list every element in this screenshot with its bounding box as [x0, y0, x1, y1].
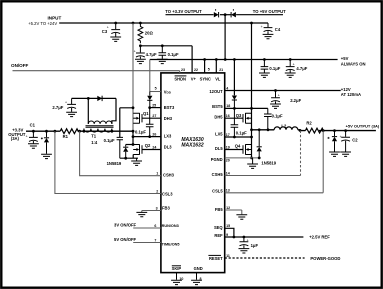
svg-text:Q2: Q2: [145, 143, 151, 148]
svg-text:5: 5: [208, 68, 210, 72]
pin label SHDN: [174, 76, 186, 82]
diode aux rectifier: [97, 96, 102, 101]
svg-text:10: 10: [179, 277, 183, 281]
transistor Q2: [133, 143, 151, 155]
junction dots on VL rail: [203, 58, 291, 61]
svg-text:+: +: [65, 101, 67, 105]
junction BST3: [148, 106, 151, 109]
svg-text:1N5819: 1N5819: [261, 160, 276, 165]
svg-text:REF: REF: [214, 233, 223, 238]
svg-text:2.2μF: 2.2μF: [290, 98, 301, 103]
wire left power ground line: [120, 157, 138, 159]
svg-text:0.1μF: 0.1μF: [236, 131, 247, 136]
diode schottky (3.3V output): [41, 131, 52, 158]
capacitor C4: [261, 23, 281, 39]
svg-text:✱: ✱: [41, 136, 44, 140]
capacitor C2: [340, 131, 359, 157]
wire LX5 stub (pin 17): [225, 136, 252, 138]
svg-text:BST3: BST3: [164, 105, 175, 110]
diode charge pump D_a: [214, 12, 219, 17]
junction dots REF: [233, 236, 246, 239]
svg-text:14: 14: [226, 171, 230, 175]
svg-text:+: +: [261, 25, 263, 29]
junction bootstrap cap bottom: [148, 135, 151, 138]
capacitor 0.1uF (BST5 bootstrap): [231, 108, 248, 137]
svg-text:13: 13: [226, 188, 230, 192]
wire LX3 riser: [132, 131, 134, 144]
junction dots on input rail: [114, 22, 253, 25]
svg-text:Q1: Q1: [143, 111, 149, 116]
svg-text:0.1μF: 0.1μF: [104, 138, 115, 143]
wire DL5 gate line (pin 19): [225, 149, 243, 151]
svg-text:1: 1: [156, 172, 158, 176]
diode D_b anode mark: [232, 9, 234, 10]
node +12V output label: [341, 87, 361, 97]
svg-text:INPUT: INPUT: [48, 16, 62, 21]
svg-text:+: +: [26, 135, 28, 139]
svg-text:0.1μF: 0.1μF: [269, 66, 280, 71]
wire input rail: [59, 22, 268, 24]
wire between diodes: [220, 14, 231, 16]
svg-text:VDD: VDD: [164, 90, 172, 95]
svg-text:SEQ: SEQ: [214, 225, 223, 230]
wire Q2 drain rail: [126, 144, 134, 146]
svg-text:9: 9: [226, 233, 228, 237]
svg-text:CSL3: CSL3: [162, 191, 173, 196]
wire SYNC stub (pin 5): [204, 60, 206, 73]
capacitor 4.7uF (V+ filter): [134, 46, 157, 64]
wire V+ pin drop (pin 22): [191, 46, 193, 73]
diode schottky (5V output): [327, 131, 340, 157]
svg-text:7: 7: [154, 238, 156, 242]
svg-text:3: 3: [156, 206, 158, 210]
wire VL stub (pin 21): [215, 60, 217, 73]
wire REF line (pin 9): [225, 236, 304, 238]
junction dots output line: [32, 130, 134, 133]
wire aux line right drop to winding: [112, 98, 116, 124]
svg-text:17: 17: [226, 133, 230, 137]
svg-text:3V ON/OFF: 3V ON/OFF: [114, 223, 137, 228]
junction input drop / aux tap: [132, 106, 135, 109]
svg-text:BST5: BST5: [212, 104, 223, 109]
wire ON/OFF to SHDN: [13, 71, 180, 73]
svg-text:LX3: LX3: [164, 133, 172, 138]
wire SEQ to REF (pin 15): [225, 228, 234, 237]
wire BST3 stub (pin 25): [150, 107, 161, 109]
junction dots +5V output: [322, 129, 347, 132]
svg-text:POWER-GOOD: POWER-GOOD: [310, 256, 340, 261]
transistor Q1: [133, 111, 149, 124]
junction dots BST5: [233, 107, 253, 110]
pin label SKIP: [172, 266, 182, 271]
svg-text:Q3: Q3: [236, 113, 242, 118]
junction dots input drop: [250, 128, 253, 159]
svg-text:23: 23: [181, 68, 185, 72]
svg-text:24: 24: [152, 145, 156, 149]
svg-text:R1: R1: [63, 134, 69, 139]
wire CSL5 sense (pin 13): [225, 131, 324, 193]
svg-text:C4: C4: [275, 27, 281, 32]
wire aux winding left riser: [87, 98, 89, 124]
capacitor 0.1uF (VL rail): [259, 60, 281, 78]
wire V+ RC node: [140, 45, 192, 47]
svg-text:T1: T1: [91, 134, 97, 139]
junction R2 left: [299, 129, 302, 132]
svg-text:21: 21: [219, 68, 223, 72]
svg-text:20Ω: 20Ω: [145, 30, 154, 35]
wire CSH5 sense (pin 14): [225, 175, 301, 177]
svg-text:PGND: PGND: [211, 157, 223, 162]
svg-text:R2: R2: [306, 121, 312, 126]
transistor Q3: [236, 113, 252, 124]
wire aux tap to snubber cap: [120, 108, 133, 137]
svg-text:SKIP: SKIP: [172, 266, 182, 271]
svg-text:+5V: +5V: [341, 56, 349, 61]
pin label RESET: [208, 255, 223, 260]
svg-text:12: 12: [226, 206, 230, 210]
svg-text:1μF: 1μF: [251, 243, 259, 248]
transformer T1: [84, 121, 114, 145]
junction dots LX5 stub: [233, 136, 253, 139]
node +5V ALWAYS ON label: [341, 56, 366, 66]
svg-text:TO +3.3V OUTPUT: TO +3.3V OUTPUT: [165, 9, 202, 14]
diode VL to BST5: [232, 96, 237, 109]
wire TIME/ON5 (pin 7): [133, 242, 161, 244]
svg-text:CSH3: CSH3: [163, 172, 175, 177]
svg-text:ALWAYS ON: ALWAYS ON: [341, 62, 366, 67]
junction LX3 stub: [132, 135, 135, 138]
svg-text:C2: C2: [352, 137, 358, 142]
svg-text:ON/OFF: ON/OFF: [11, 63, 29, 68]
svg-text:RESET: RESET: [209, 256, 223, 261]
wire +3.3V output line: [26, 130, 133, 132]
wire VDD stub (pin 5): [150, 91, 161, 93]
capacitor C1: [26, 123, 39, 149]
ground (left power stage): [131, 158, 142, 165]
svg-text:TIME/ON5: TIME/ON5: [162, 242, 180, 246]
junction 2.2uF: [274, 89, 277, 92]
svg-text:0.1μF: 0.1μF: [272, 114, 283, 119]
svg-text:CSH5: CSH5: [212, 172, 224, 177]
svg-text:2.7μF: 2.7μF: [52, 105, 63, 110]
svg-text:4: 4: [226, 86, 228, 90]
wire CSH3 sense: [80, 131, 161, 176]
op-amp U1 MAX1630/MAX1632 IC body: [161, 73, 225, 273]
svg-text:4.7μF: 4.7μF: [146, 52, 157, 57]
capacitor 2.7uF (aux): [52, 98, 77, 116]
svg-text:C1: C1: [30, 123, 36, 128]
svg-text:FB3: FB3: [162, 206, 170, 211]
svg-text:C3: C3: [102, 29, 108, 34]
svg-text:+2.5V REF: +2.5V REF: [309, 234, 330, 239]
resistor R1: [60, 129, 78, 139]
svg-text:11: 11: [226, 254, 230, 258]
wire CSH5 dashed riser: [300, 131, 302, 176]
wire BST5 stub and extension (pin 18): [225, 107, 268, 109]
capacitor C3: [102, 23, 121, 41]
resistor 20ohm (V+ filter): [138, 23, 153, 43]
svg-text:DL5: DL5: [215, 146, 223, 151]
ground SKIP pin (pin 10): [171, 273, 182, 285]
wire RESET dashed (pin 11): [225, 257, 305, 259]
svg-text:26: 26: [152, 133, 156, 137]
wire Q2 source drop: [132, 155, 134, 159]
svg-text:2: 2: [156, 189, 158, 193]
svg-text:4.7μF: 4.7μF: [296, 66, 307, 71]
svg-text:12OUT: 12OUT: [209, 89, 223, 94]
svg-text:AT 120mA: AT 120mA: [341, 92, 361, 97]
junction aux line: [87, 97, 90, 100]
capacitor 4.7uF (VL rail): [285, 60, 308, 78]
svg-text:SYNC: SYNC: [200, 76, 211, 81]
wire VL/+5V-always rail: [150, 59, 338, 61]
wire RUN/ON3 (pin 6): [133, 227, 161, 229]
diode 1N5819 (left): [107, 145, 129, 167]
svg-text:TO +5V OUTPUT: TO +5V OUTPUT: [253, 9, 286, 14]
svg-text:27: 27: [152, 114, 156, 118]
diode 1N5819 (right): [257, 128, 277, 165]
node INPUT label: [28, 16, 61, 27]
svg-text:LX5: LX5: [215, 132, 223, 137]
wire VDD drop from rail: [149, 60, 151, 92]
svg-text:(3A): (3A): [11, 136, 20, 141]
svg-text:19: 19: [226, 145, 230, 149]
wire CSL3 sense: [55, 131, 161, 193]
svg-text:MAX1632: MAX1632: [181, 143, 203, 149]
svg-text:L2: L2: [281, 123, 287, 128]
junction charge pump center: [224, 13, 227, 16]
wire charge pump center drop to VL rail: [224, 15, 226, 60]
svg-text:+5V OUTPUT (3A): +5V OUTPUT (3A): [346, 124, 380, 129]
wire PGND line (pin 20): [225, 157, 260, 159]
U1 part number label: [181, 137, 203, 148]
svg-text:Q4: Q4: [235, 143, 241, 148]
svg-text:+: +: [278, 94, 280, 98]
capacitor 0.1uF (V+ filter): [157, 46, 179, 64]
diode D_a anode mark: [215, 9, 217, 10]
ground GND pin (pin 8): [191, 273, 202, 285]
diode charge pump D_b: [231, 12, 236, 17]
svg-text:FB5: FB5: [215, 207, 223, 212]
svg-text:5V ON/OFF: 5V ON/OFF: [114, 237, 137, 242]
svg-text:0.1μF: 0.1μF: [168, 52, 179, 57]
svg-text:1:4: 1:4: [91, 140, 98, 145]
svg-text:GND: GND: [194, 266, 203, 271]
svg-text:VL: VL: [215, 76, 221, 81]
wire charge-pump right: [236, 14, 283, 16]
junction cap to inductor line: [267, 128, 270, 131]
ground (right power stage): [247, 158, 258, 169]
wire 12OUT line (pin 4): [225, 90, 341, 92]
svg-text:22: 22: [194, 68, 198, 72]
svg-text:+: +: [293, 63, 295, 67]
node +3.3V OUTPUT label: [8, 127, 26, 141]
svg-text:20: 20: [226, 158, 230, 162]
capacitor 0.1uF (BST5 to LX5 right): [264, 108, 283, 130]
diode VDD to BST3: [147, 92, 152, 108]
junction dots V+ node: [139, 44, 164, 47]
wire FB5 to ground (pin 12): [225, 210, 248, 219]
wire VL rail to BST5 diode: [233, 60, 235, 96]
svg-text:DH3: DH3: [164, 116, 173, 121]
svg-text:25: 25: [152, 103, 156, 107]
wire DH3 gate line (pin 27): [142, 117, 161, 119]
wire LX3 stub (pin 26): [133, 136, 161, 138]
resistor R2: [305, 121, 323, 133]
wire charge-pump left: [166, 14, 214, 16]
wire aux winding line: [72, 97, 116, 99]
svg-text:0.1μF: 0.1μF: [135, 130, 146, 135]
wire DL3 gate line (pin 24): [142, 149, 161, 151]
svg-text:1N5819: 1N5819: [107, 161, 122, 166]
wire LX5/inductor line: [252, 129, 376, 132]
svg-text:V+: V+: [191, 76, 197, 81]
svg-text:15: 15: [226, 224, 230, 228]
wire input drop to left power stage: [132, 23, 134, 131]
svg-text:+: +: [134, 50, 136, 54]
svg-text:8: 8: [200, 277, 202, 281]
capacitor 1uF (REF): [239, 237, 259, 253]
capacitor 2.2uF (12OUT): [270, 91, 301, 109]
svg-text:18: 18: [226, 104, 230, 108]
inductor L2: [274, 123, 298, 129]
svg-text:16: 16: [226, 114, 230, 118]
svg-text:SHDN: SHDN: [174, 76, 186, 81]
svg-text:✱: ✱: [327, 136, 330, 140]
capacitor 0.1uF (snubber): [104, 137, 123, 158]
svg-text:DL3: DL3: [164, 144, 172, 149]
junction diode to ground line: [124, 157, 127, 160]
svg-text:RUN/ON3: RUN/ON3: [162, 224, 179, 228]
transistor Q4: [235, 143, 252, 154]
svg-text:5: 5: [155, 86, 157, 90]
svg-text:CSL5: CSL5: [212, 188, 223, 193]
wire input drop to Q3/Q4 (right power stage): [251, 23, 253, 158]
svg-text:6: 6: [154, 224, 156, 228]
svg-text:DH5: DH5: [214, 115, 223, 120]
junction Q2 drain: [132, 143, 135, 146]
capacitor 0.1uF (BST3 bootstrap): [135, 108, 154, 137]
wire DH5 gate line (pin 16): [225, 117, 243, 119]
svg-text:+5.2V TO +24V: +5.2V TO +24V: [28, 21, 57, 26]
wire FB3 to ground (pin 3): [136, 211, 160, 217]
